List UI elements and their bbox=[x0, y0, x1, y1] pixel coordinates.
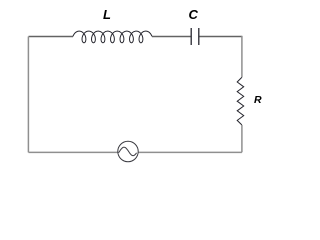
label R bbox=[254, 94, 262, 106]
AC source circle bbox=[118, 141, 138, 161]
capacitor C left plate bbox=[190, 28, 192, 45]
label L bbox=[103, 7, 111, 22]
wire right side above resistor bbox=[241, 36, 243, 78]
AC source sine wave bbox=[119, 147, 137, 155]
wire between inductor and capacitor bbox=[152, 36, 191, 38]
wire left side bbox=[27, 37, 29, 153]
resistor R zigzag bbox=[237, 77, 244, 125]
inductor L coil bbox=[73, 31, 152, 43]
wire bottom right of source bbox=[138, 151, 242, 153]
wire capacitor to top-right corner bbox=[199, 36, 242, 38]
wire right side below resistor bbox=[241, 125, 243, 152]
label C bbox=[189, 7, 198, 22]
wire bottom left of source bbox=[29, 151, 118, 153]
capacitor C right plate bbox=[198, 28, 200, 45]
wire top-left segment bbox=[29, 36, 74, 38]
